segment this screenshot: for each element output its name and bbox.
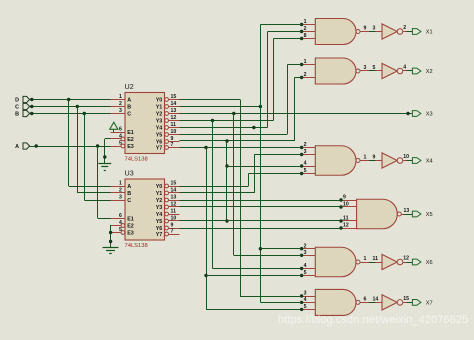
- svg-text:1: 1: [304, 59, 307, 65]
- svg-text:3: 3: [373, 26, 376, 32]
- svg-text:2: 2: [119, 101, 122, 107]
- svg-text:11: 11: [171, 209, 177, 215]
- svg-text:E1: E1: [127, 217, 134, 223]
- svg-text:10: 10: [171, 216, 177, 222]
- svg-text:4: 4: [304, 263, 307, 269]
- svg-text:Y3: Y3: [156, 119, 163, 125]
- svg-text:11: 11: [373, 256, 379, 262]
- svg-text:7: 7: [171, 229, 174, 235]
- svg-text:X2: X2: [426, 69, 433, 75]
- svg-text:X4: X4: [426, 159, 433, 165]
- svg-text:14: 14: [171, 188, 177, 194]
- svg-text:5: 5: [119, 227, 122, 233]
- svg-text:1: 1: [119, 181, 122, 187]
- svg-text:9: 9: [343, 195, 346, 201]
- svg-text:U3: U3: [125, 169, 134, 178]
- svg-text:12: 12: [403, 256, 409, 262]
- svg-text:5: 5: [304, 270, 307, 276]
- svg-text:Y7: Y7: [156, 146, 163, 152]
- svg-text:Y1: Y1: [156, 105, 163, 111]
- svg-text:Y0: Y0: [156, 98, 163, 104]
- svg-text:3: 3: [119, 108, 122, 114]
- svg-text:E3: E3: [127, 231, 134, 237]
- svg-text:3: 3: [119, 195, 122, 201]
- svg-text:12: 12: [171, 115, 177, 121]
- svg-text:5: 5: [373, 65, 376, 71]
- svg-text:15: 15: [171, 181, 177, 187]
- svg-text:74LS138: 74LS138: [125, 157, 148, 163]
- svg-text:B: B: [127, 191, 131, 197]
- svg-text:3: 3: [364, 65, 367, 71]
- svg-text:2: 2: [403, 25, 406, 31]
- svg-text:E3: E3: [127, 144, 134, 150]
- svg-text:13: 13: [171, 195, 177, 201]
- svg-text:https://blog.csdn.net/weixin_4: https://blog.csdn.net/weixin_42076625: [278, 314, 468, 326]
- svg-text:B: B: [127, 105, 131, 111]
- svg-text:10: 10: [343, 202, 349, 208]
- svg-text:Y4: Y4: [156, 126, 163, 132]
- svg-text:2: 2: [304, 26, 307, 32]
- svg-text:8: 8: [304, 33, 307, 39]
- svg-text:Y3: Y3: [156, 205, 163, 211]
- svg-text:11: 11: [171, 122, 177, 128]
- svg-text:4: 4: [119, 134, 122, 140]
- svg-text:A: A: [15, 144, 19, 150]
- svg-text:9: 9: [373, 155, 376, 161]
- svg-text:74LS138: 74LS138: [125, 243, 148, 249]
- svg-text:11: 11: [343, 216, 349, 222]
- svg-text:Y0: Y0: [156, 184, 163, 190]
- svg-text:B: B: [15, 112, 19, 118]
- svg-text:C: C: [15, 105, 19, 111]
- svg-text:E2: E2: [127, 137, 134, 143]
- svg-text:U2: U2: [125, 82, 134, 91]
- svg-text:10: 10: [171, 129, 177, 135]
- svg-text:2: 2: [304, 72, 307, 78]
- svg-text:X6: X6: [426, 260, 433, 266]
- svg-text:9: 9: [364, 26, 367, 32]
- svg-text:3: 3: [304, 250, 307, 256]
- svg-text:14: 14: [373, 296, 379, 302]
- svg-text:Y5: Y5: [156, 133, 163, 139]
- svg-text:C: C: [127, 198, 131, 204]
- svg-text:1: 1: [304, 19, 307, 25]
- svg-text:X1: X1: [426, 30, 433, 36]
- svg-text:14: 14: [171, 101, 177, 107]
- svg-text:1: 1: [119, 94, 122, 100]
- svg-text:X5: X5: [426, 212, 433, 218]
- svg-text:1: 1: [364, 256, 367, 262]
- svg-text:Y1: Y1: [156, 191, 163, 197]
- svg-text:A: A: [127, 184, 131, 190]
- svg-text:4: 4: [119, 220, 122, 226]
- svg-text:5: 5: [119, 141, 122, 147]
- svg-text:13: 13: [171, 108, 177, 114]
- svg-text:4: 4: [304, 297, 307, 303]
- svg-text:C: C: [127, 112, 131, 118]
- svg-text:Y2: Y2: [156, 112, 163, 118]
- svg-text:15: 15: [403, 296, 409, 302]
- svg-text:4: 4: [403, 65, 406, 71]
- svg-text:6: 6: [119, 213, 122, 219]
- svg-text:6: 6: [119, 127, 122, 133]
- svg-text:A: A: [127, 98, 131, 104]
- svg-text:Y5: Y5: [156, 219, 163, 225]
- svg-text:12: 12: [343, 223, 349, 229]
- svg-text:Y4: Y4: [156, 212, 163, 218]
- svg-text:4: 4: [304, 161, 307, 167]
- svg-text:Y7: Y7: [156, 232, 163, 238]
- svg-text:E1: E1: [127, 130, 134, 136]
- svg-text:3: 3: [304, 291, 307, 297]
- svg-text:5: 5: [304, 168, 307, 174]
- svg-text:6: 6: [364, 296, 367, 302]
- svg-text:15: 15: [171, 94, 177, 100]
- svg-text:2: 2: [304, 142, 307, 148]
- svg-text:D: D: [15, 98, 19, 104]
- svg-text:Y2: Y2: [156, 198, 163, 204]
- svg-text:10: 10: [403, 154, 409, 160]
- svg-text:1: 1: [364, 155, 367, 161]
- svg-text:X3: X3: [426, 112, 433, 118]
- svg-text:3: 3: [304, 149, 307, 155]
- svg-text:X7: X7: [426, 301, 433, 307]
- svg-text:12: 12: [171, 202, 177, 208]
- svg-text:7: 7: [171, 142, 174, 148]
- svg-text:13: 13: [404, 208, 410, 214]
- svg-text:5: 5: [304, 304, 307, 310]
- svg-text:2: 2: [119, 188, 122, 194]
- svg-text:2: 2: [304, 243, 307, 249]
- svg-text:E2: E2: [127, 224, 134, 230]
